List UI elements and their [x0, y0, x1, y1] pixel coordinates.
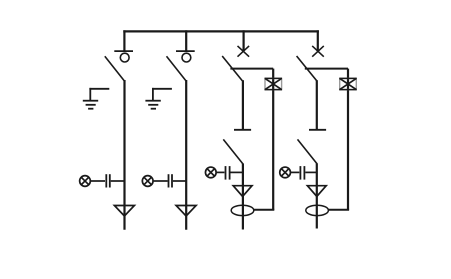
fuse F3 (boxed X) [265, 78, 282, 89]
wire: lamp H3 to capacitor C3 [217, 171, 225, 173]
wire: feeder 3 drop from busbar [243, 30, 245, 50]
capacitor C2 (voltage indicator) [169, 174, 173, 187]
open contact end bar (feeder 4) [309, 129, 326, 131]
wire: branch to fuse line (feeder 4) [305, 68, 348, 70]
wire: capacitor C4 to feeder 4 [305, 171, 317, 173]
indicator lamp H4 [280, 167, 291, 178]
indicator lamp H1 [80, 176, 91, 187]
switch-disconnector blade (feeder 3, open) [222, 56, 242, 81]
switch-disconnector blade (feeder 4, open) [297, 56, 317, 81]
wire: feeder 4 upper vertical [316, 80, 318, 130]
lower switch blade (feeder 4, open) [298, 139, 318, 164]
busbar [123, 30, 319, 32]
wire: feeder 3 upper vertical [242, 80, 244, 130]
disconnector S2 contact circle [182, 53, 191, 62]
lower switch blade (feeder 3, open) [223, 139, 243, 164]
wire: feeder 3 lower vertical [242, 164, 244, 230]
wire: branch to fuse line (feeder 3) [230, 68, 273, 70]
wire: fuse line to transformer ring (feeder 3) [254, 209, 275, 211]
wire: fuse line to transformer ring (feeder 4) [328, 209, 349, 211]
ground symbol (feeder 2 earthing) [145, 88, 172, 109]
wire: feeder 2 main vertical [185, 80, 187, 230]
disconnector S1 contact circle [120, 53, 129, 62]
wire: feeder 1 drop from busbar [123, 30, 125, 51]
fuse F4 (boxed X) [339, 78, 356, 89]
capacitor C4 (voltage indicator) [300, 166, 304, 180]
switch contact cross X3 [238, 46, 250, 57]
wire: capacitor C2 to feeder 2 [173, 180, 186, 182]
wire: fuse line vertical (feeder 3) [272, 69, 274, 210]
wire: feeder 4 drop from busbar [317, 30, 319, 50]
current transformer ring (feeder 4) [306, 205, 329, 215]
wire: feeder 2 drop from busbar [185, 30, 187, 51]
current transformer ring (feeder 3) [231, 205, 254, 215]
wire: capacitor C1 to feeder 1 [111, 180, 125, 182]
wire: feeder 1 main vertical [123, 80, 125, 230]
wire: fuse line vertical (feeder 4) [347, 69, 349, 210]
wire: capacitor C3 to feeder 3 [231, 171, 243, 173]
indicator lamp H3 [205, 167, 216, 178]
disconnector S1 blade (open) [105, 56, 124, 81]
disconnector S2 fixed contact bar [176, 50, 195, 52]
capacitor C1 (voltage indicator) [106, 174, 110, 187]
open contact end bar (feeder 3) [234, 129, 251, 131]
wire: lamp H1 to capacitor C1 [91, 180, 105, 182]
cable termination arrow (feeder 4) [307, 186, 326, 197]
wire: lamp H2 to capacitor C2 [154, 180, 168, 182]
cable termination arrow (feeder 2) [176, 206, 196, 217]
capacitor C3 (voltage indicator) [226, 166, 230, 180]
cable termination arrow (feeder 3) [233, 186, 252, 197]
disconnector S1 fixed contact bar [114, 50, 133, 52]
wire: feeder 4 lower vertical [316, 164, 318, 229]
ground symbol (feeder 1 earthing) [83, 88, 110, 109]
disconnector S2 blade (open) [167, 56, 186, 81]
indicator lamp H2 [142, 176, 153, 187]
wire: lamp H4 to capacitor C4 [291, 171, 299, 173]
switch contact cross X4 [312, 46, 324, 57]
cable termination arrow (feeder 1) [114, 206, 134, 217]
